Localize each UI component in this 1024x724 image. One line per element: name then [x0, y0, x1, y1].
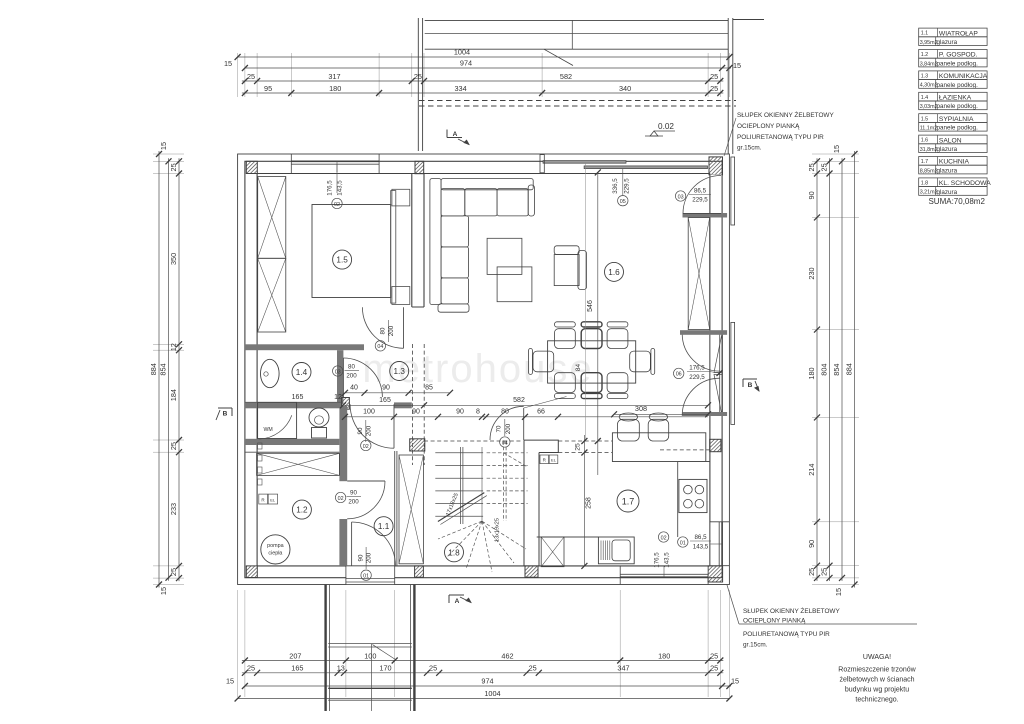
svg-text:SYPIALNIA: SYPIALNIA	[939, 116, 974, 123]
window 02 kitchen bottom wall	[620, 576, 708, 578]
kitchen dim 308 line	[614, 413, 708, 415]
door 03 right wall label	[675, 191, 685, 201]
room label 1.1	[374, 517, 393, 536]
window 06 casement leaf top	[714, 334, 722, 373]
inner face bottom wall	[257, 565, 710, 567]
svg-text:143,5: 143,5	[337, 180, 344, 196]
niche boxes R EL kitchen	[540, 455, 549, 464]
door 01 entrance leaf	[351, 522, 353, 566]
kitchen base cabinets bottom	[537, 536, 599, 538]
wall stair-kitchen top L outline	[524, 440, 558, 452]
svg-text:04: 04	[377, 344, 383, 350]
room label 1.7	[617, 490, 639, 512]
svg-text:214: 214	[807, 464, 816, 476]
dining chairs top row	[555, 329, 576, 349]
svg-text:1.4: 1.4	[921, 95, 929, 101]
dimension 884 right	[854, 151, 856, 588]
coffee table 1	[487, 238, 522, 274]
svg-text:40: 40	[350, 385, 358, 392]
armchair armrest top	[554, 246, 579, 255]
svg-text:804: 804	[820, 364, 829, 376]
svg-text:budynku wg projektu: budynku wg projektu	[845, 687, 909, 694]
svg-text:UWAGA!: UWAGA!	[863, 654, 891, 661]
window 06 casement leaf bottom	[714, 375, 722, 416]
dimension chain bottom 25 165 13 170 25 25 347 25	[242, 672, 723, 674]
svg-text:200: 200	[346, 373, 357, 380]
room label 1.4	[292, 363, 311, 382]
svg-text:25: 25	[429, 664, 437, 673]
svg-text:04: 04	[502, 440, 508, 446]
svg-text:15: 15	[159, 142, 168, 150]
window 06 outer sliding track	[731, 322, 735, 424]
nightstand top	[392, 189, 410, 206]
terrace left wall	[417, 18, 419, 151]
wall bathroom-corridor vertical dark	[337, 350, 343, 404]
svg-text:884: 884	[149, 363, 158, 375]
svg-text:SŁUPEK OKIENNY ŻELBETOWY: SŁUPEK OKIENNY ŻELBETOWY	[743, 606, 840, 615]
armchair seat	[554, 255, 579, 286]
sofa armrest bottom	[438, 304, 469, 312]
dimension chain bottom 207 100 462 180 25	[242, 660, 723, 662]
svg-text:ŁAZIENKA: ŁAZIENKA	[939, 95, 972, 102]
svg-text:1.5: 1.5	[921, 116, 929, 122]
dining table	[548, 341, 636, 383]
entrance threshold lines	[346, 578, 395, 580]
door 03 bathroom leaf	[342, 358, 344, 397]
svg-text:143,5: 143,5	[693, 544, 709, 551]
svg-text:panele podłog.: panele podłog.	[937, 125, 979, 132]
dimension chain left 25 350 12 184 25 233 25	[178, 158, 180, 581]
sofa back vertical	[430, 179, 441, 305]
section marker A bottom	[449, 594, 464, 596]
door 04 bedroom arc	[362, 307, 403, 348]
svg-text:Rozmieszczenie trzonów: Rozmieszczenie trzonów	[838, 667, 916, 674]
toilet	[309, 408, 329, 427]
svg-text:15: 15	[224, 59, 232, 68]
svg-text:03: 03	[678, 194, 684, 200]
window 01 kitchen label	[678, 537, 688, 547]
svg-text:A: A	[455, 598, 460, 605]
svg-text:02: 02	[661, 535, 667, 541]
small boxes R EL 1.2	[259, 494, 268, 504]
svg-text:glazura: glazura	[937, 146, 958, 153]
kitchen island counter	[612, 433, 705, 462]
svg-text:317: 317	[328, 72, 340, 81]
svg-text:1.8: 1.8	[448, 548, 460, 557]
entrance opening whitener	[346, 566, 394, 584]
door 04 stairs leaf	[523, 408, 525, 440]
svg-text:POLIURETANOWĄ TYPU PIR: POLIURETANOWĄ TYPU PIR	[737, 134, 824, 141]
svg-text:15: 15	[226, 677, 234, 686]
svg-text:1.3: 1.3	[921, 74, 929, 80]
svg-text:1.1: 1.1	[378, 522, 390, 531]
interior dim 165 582 line	[343, 404, 708, 406]
svg-text:462: 462	[501, 651, 513, 660]
wall bedroom-bathroom thin dark	[245, 344, 364, 350]
wall bathroom south dark	[245, 402, 342, 408]
svg-text:15: 15	[832, 145, 841, 153]
interior vertical dim 546	[597, 172, 599, 475]
dining chair right	[630, 351, 651, 372]
svg-text:12: 12	[334, 394, 342, 401]
svg-text:01: 01	[680, 540, 686, 546]
dimension 854 left	[168, 158, 170, 580]
porch right wall	[413, 585, 415, 712]
sofa seats vertical	[441, 216, 468, 247]
svg-text:90: 90	[382, 385, 390, 392]
svg-text:06: 06	[676, 372, 682, 378]
svg-text:WIATROŁAP: WIATROŁAP	[939, 30, 978, 37]
door 04 stairs leader diagonal	[524, 397, 567, 409]
svg-text:1.5: 1.5	[336, 256, 348, 265]
svg-text:panele podłog.: panele podłog.	[937, 60, 979, 67]
svg-text:25: 25	[169, 568, 178, 576]
concrete core xbox right wall upper	[688, 218, 710, 330]
svg-text:176,5: 176,5	[654, 552, 661, 568]
svg-text:OCIEPLONY PIANKĄ: OCIEPLONY PIANKĄ	[743, 618, 806, 625]
svg-text:EL: EL	[270, 498, 276, 503]
bed headboard	[391, 191, 396, 304]
window 05 salon sliding pane A	[543, 161, 626, 164]
svg-text:gr.15cm.: gr.15cm.	[743, 642, 768, 649]
stair break line	[438, 493, 484, 522]
wall 1.2-1.1 vertical	[339, 406, 347, 481]
svg-text:1004: 1004	[484, 689, 500, 698]
svg-text:8,85m2: 8,85m2	[920, 168, 938, 174]
svg-text:1.1: 1.1	[921, 31, 929, 37]
stair winder fan dashed lines	[438, 521, 482, 539]
wall stub corridor south dark	[394, 402, 412, 408]
window 06 french door right wall	[719, 334, 721, 416]
terrace divider	[571, 20, 573, 49]
room label 1.8	[445, 543, 464, 562]
section marker B left	[218, 407, 232, 409]
svg-text:1.7: 1.7	[921, 159, 929, 165]
door 04 bedroom leaf	[403, 307, 405, 348]
svg-text:SALON: SALON	[939, 137, 962, 144]
svg-text:347: 347	[617, 664, 629, 673]
extension line 585	[584, 163, 586, 439]
dimension 1004 top	[238, 56, 730, 58]
svg-text:1.8: 1.8	[921, 181, 929, 187]
svg-text:15: 15	[159, 587, 168, 595]
wall stub dark below window 06	[683, 412, 728, 416]
svg-text:R: R	[261, 498, 265, 503]
beam dashed lines over corridor opening	[412, 344, 414, 465]
wall stub dark above window 06	[680, 330, 727, 335]
svg-text:86,5: 86,5	[694, 188, 707, 195]
porch center line	[371, 644, 373, 711]
svg-text:974: 974	[481, 677, 493, 686]
svg-text:25: 25	[247, 664, 255, 673]
door 03 right wall top arc	[683, 176, 721, 214]
concrete core xbox stairs left	[399, 455, 423, 564]
svg-text:13: 13	[337, 664, 345, 673]
dashed opening line above stairs	[424, 440, 523, 442]
svg-text:15: 15	[834, 588, 843, 596]
svg-text:KUCHNIA: KUCHNIA	[939, 159, 970, 166]
svg-text:233: 233	[169, 503, 178, 515]
window 06 casement arc top	[682, 334, 720, 372]
svg-text:350: 350	[169, 253, 178, 265]
svg-text:żelbetowych w ścianach: żelbetowych w ścianach	[839, 677, 914, 684]
svg-text:B: B	[748, 382, 753, 389]
extension lines right dims	[812, 153, 859, 155]
svg-text:EL: EL	[551, 458, 557, 463]
svg-text:gr.15cm.: gr.15cm.	[737, 145, 762, 152]
dimension 974 top	[245, 67, 731, 69]
cooktop	[679, 479, 707, 512]
outer insulation boundary	[238, 154, 730, 585]
terrace slope mark	[544, 49, 573, 65]
porch step line	[328, 643, 412, 645]
inner face top wall	[257, 173, 710, 175]
wall fixtures 1.2	[258, 443, 263, 449]
svg-text:3,21m2: 3,21m2	[920, 190, 938, 196]
window jamb marks	[290, 154, 292, 174]
svg-text:229,5: 229,5	[624, 178, 631, 194]
dimension chain right 25 90 230 180 214 90 25	[816, 158, 818, 581]
door 01 entrance arc	[352, 522, 396, 566]
svg-text:glazura: glazura	[937, 39, 958, 46]
svg-text:230: 230	[807, 267, 816, 279]
svg-text:854: 854	[159, 363, 168, 375]
svg-text:1.2: 1.2	[921, 52, 929, 58]
svg-text:80: 80	[501, 408, 509, 415]
door 04 stairs arc	[490, 406, 524, 440]
svg-text:25: 25	[807, 568, 816, 576]
svg-text:glazura: glazura	[937, 167, 958, 174]
svg-text:25: 25	[820, 568, 829, 576]
sofa back horizontal	[441, 179, 533, 190]
svg-text:200: 200	[388, 325, 395, 336]
interior dim chain 100 90 90 8 80 66 308	[345, 416, 708, 418]
dimension 884 left	[158, 151, 160, 588]
svg-text:25: 25	[169, 163, 178, 171]
svg-text:90: 90	[357, 427, 364, 434]
svg-text:A: A	[453, 131, 458, 138]
svg-text:582: 582	[560, 72, 572, 81]
svg-text:1.6: 1.6	[921, 138, 929, 144]
extension lines top dims	[237, 53, 239, 97]
window opening whiteners	[291, 165, 379, 173]
window 02 bedroom label	[336, 164, 338, 193]
washbasin	[261, 359, 280, 387]
svg-text:90: 90	[350, 490, 357, 497]
svg-text:3,84m2: 3,84m2	[920, 61, 938, 67]
svg-text:229,5: 229,5	[689, 374, 705, 381]
armchair back	[578, 251, 587, 290]
note slupek bottom right leader	[727, 585, 739, 624]
svg-text:12: 12	[169, 343, 178, 351]
terrace right slab edge	[733, 19, 764, 21]
coffee table 2	[497, 267, 532, 302]
wall stub dark below door 03	[683, 213, 728, 218]
svg-text:974: 974	[460, 59, 472, 68]
svg-text:technicznego.: technicznego.	[855, 697, 898, 704]
corner window outer track top right	[731, 157, 735, 225]
svg-text:90: 90	[412, 408, 420, 415]
room label 1.3	[390, 362, 409, 381]
svg-text:1.6: 1.6	[608, 268, 620, 277]
svg-text:66: 66	[537, 408, 545, 415]
svg-text:1.3: 1.3	[394, 367, 406, 376]
svg-text:17x18x25: 17x18x25	[445, 492, 460, 516]
inner face right wall	[709, 174, 711, 566]
door 04 stairs label	[500, 437, 510, 447]
svg-text:SUMA:70,08m2: SUMA:70,08m2	[928, 197, 985, 206]
svg-text:1.4: 1.4	[296, 368, 308, 377]
door 02 1.2-1.1 arc	[347, 481, 385, 519]
dining chair left	[533, 351, 554, 372]
svg-text:25: 25	[807, 163, 816, 171]
svg-text:95: 95	[264, 84, 272, 93]
svg-text:176,5: 176,5	[689, 365, 705, 372]
svg-text:200: 200	[348, 499, 359, 506]
svg-text:165: 165	[379, 397, 391, 404]
svg-text:143,5: 143,5	[664, 552, 671, 568]
svg-text:25: 25	[247, 72, 255, 81]
stair flight separation double line	[459, 447, 461, 524]
dimension 1004 bottom	[238, 698, 730, 700]
svg-text:170: 170	[379, 664, 391, 673]
svg-text:100: 100	[364, 651, 376, 660]
svg-text:165: 165	[291, 664, 303, 673]
stair dashed diagonal upper	[504, 453, 527, 467]
svg-text:25: 25	[414, 72, 422, 81]
window 05 mullion cap	[540, 155, 544, 173]
svg-text:90: 90	[357, 554, 364, 561]
svg-text:31,8m2: 31,8m2	[920, 147, 938, 153]
svg-text:WM: WM	[264, 427, 273, 433]
interior vertical dim 25 258	[583, 435, 585, 566]
svg-text:SŁUPEK OKIENNY ŻELBETOWY: SŁUPEK OKIENNY ŻELBETOWY	[737, 110, 834, 119]
svg-text:582: 582	[513, 397, 525, 404]
partition wall bedroom-salon	[411, 174, 413, 308]
sofa armrest right	[528, 185, 534, 216]
svg-text:90: 90	[807, 191, 816, 199]
svg-text:KOMUNIKACJA: KOMUNIKACJA	[939, 73, 988, 80]
svg-text:glazura: glazura	[937, 189, 958, 196]
svg-text:R: R	[543, 458, 547, 463]
svg-text:165: 165	[292, 394, 304, 401]
door 02 1.2 label	[335, 492, 345, 502]
kitchen counter right	[677, 462, 679, 538]
svg-text:180: 180	[658, 651, 670, 660]
dimension chain 25 317 25 582 25	[242, 80, 723, 82]
section marker A top	[447, 137, 462, 139]
svg-text:25: 25	[820, 163, 829, 171]
stair treads upper flight dashed	[487, 452, 528, 454]
stair right wall	[523, 440, 525, 566]
svg-text:200: 200	[505, 423, 512, 434]
svg-text:180: 180	[807, 367, 816, 379]
sofa seats horizontal	[441, 189, 465, 216]
svg-text:15: 15	[733, 61, 741, 70]
door 03 bathroom arc	[343, 358, 382, 397]
dimension 854 right	[841, 158, 843, 581]
wall 1.1-stair core lines	[394, 451, 396, 566]
svg-text:207: 207	[289, 651, 301, 660]
window 02 kitchen label	[658, 532, 668, 542]
svg-text:25: 25	[710, 651, 718, 660]
svg-text:854: 854	[832, 364, 841, 376]
washing machine	[258, 402, 297, 438]
svg-text:0.02: 0.02	[658, 122, 674, 131]
svg-text:13x19x25: 13x19x25	[495, 518, 501, 542]
door 02 1.2-1.1 leaf	[347, 480, 385, 482]
svg-text:KL. SCHODOWA: KL. SCHODOWA	[939, 180, 991, 187]
svg-text:B: B	[223, 411, 228, 418]
svg-text:3,95m2: 3,95m2	[920, 40, 938, 46]
svg-text:8: 8	[476, 408, 480, 415]
svg-text:200: 200	[365, 425, 372, 436]
kitchen cabinet xbox	[541, 537, 564, 567]
svg-text:POLIURETANOWĄ TYPU PIR: POLIURETANOWĄ TYPU PIR	[743, 631, 830, 638]
svg-text:pompa: pompa	[267, 543, 283, 549]
svg-text:84: 84	[575, 364, 582, 372]
dining chairs bottom row	[555, 373, 576, 393]
room label 1.2	[292, 500, 311, 519]
svg-text:200: 200	[366, 552, 373, 563]
svg-text:184: 184	[169, 389, 178, 401]
door 03 bathroom label	[333, 366, 343, 376]
svg-text:176,5: 176,5	[327, 180, 334, 196]
section marker B right	[743, 378, 757, 380]
terrace right wall	[727, 18, 729, 154]
svg-text:70: 70	[495, 425, 502, 432]
extension lines left dims	[153, 153, 184, 155]
terrace step line	[425, 32, 729, 34]
svg-text:25: 25	[574, 443, 581, 451]
interior dim line 165 12 bathroom	[245, 401, 343, 403]
door 02 corridor-1.1 arc	[350, 404, 394, 448]
structural wall outer rectangle	[245, 161, 722, 577]
window 02 bedroom top wall	[291, 160, 379, 162]
dashed lines kitchen overhead	[558, 440, 612, 442]
window 05 salon sliding pane B	[584, 166, 707, 169]
roof overhang dashed lines	[419, 100, 736, 102]
svg-text:90: 90	[456, 408, 464, 415]
kitchen sink	[598, 537, 634, 564]
svg-text:25: 25	[710, 72, 718, 81]
svg-text:86,5: 86,5	[694, 534, 707, 541]
room label 1.5	[333, 250, 352, 269]
porch diagonal mark	[373, 645, 396, 660]
wall room1.2 north dark band	[245, 439, 340, 445]
svg-text:25: 25	[529, 664, 537, 673]
svg-text:01: 01	[363, 574, 369, 580]
svg-text:OCIEPLONY PIANKĄ: OCIEPLONY PIANKĄ	[737, 123, 800, 130]
wardrobe bedroom	[258, 177, 286, 259]
svg-text:180: 180	[329, 84, 341, 93]
svg-text:80: 80	[348, 364, 355, 371]
svg-text:4,30m2: 4,30m2	[920, 83, 938, 89]
svg-text:85: 85	[425, 385, 433, 392]
inner face left wall	[256, 174, 258, 566]
svg-text:25: 25	[710, 664, 718, 673]
stair upper flight dashed rails	[503, 441, 505, 521]
window 06 label	[674, 368, 684, 378]
dimension 974 bottom	[245, 685, 731, 687]
svg-text:02: 02	[338, 496, 344, 502]
terrace bottom edge	[425, 48, 729, 50]
svg-text:11,1m2: 11,1m2	[920, 126, 938, 132]
window 06 casement arc bottom	[682, 378, 720, 416]
svg-text:1.2: 1.2	[296, 506, 308, 515]
legend table	[919, 28, 987, 46]
washer dryer xbox 1.2	[257, 453, 340, 475]
